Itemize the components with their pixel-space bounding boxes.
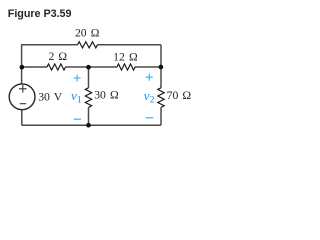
svg-text:12 Ω: 12 Ω bbox=[113, 51, 138, 64]
wire 30ohm branch upper bbox=[88, 67, 90, 88]
resistor 30 ohm (vertical) bbox=[85, 88, 91, 108]
svg-text:v1: v1 bbox=[71, 88, 82, 106]
wire middle right (R 12ohm to right edge) bbox=[135, 66, 161, 68]
resistor 20 ohm bbox=[78, 42, 98, 48]
figure caption bbox=[8, 8, 72, 20]
v1 polarity plus (blue) bbox=[74, 75, 81, 82]
voltage source plus sign bbox=[19, 85, 27, 93]
wire top (left of R 20ohm) bbox=[22, 44, 78, 46]
resistor 70 ohm (vertical) bbox=[158, 88, 164, 108]
voltage source V1 circle bbox=[9, 84, 35, 110]
svg-text:20 Ω: 20 Ω bbox=[75, 26, 100, 39]
v1 polarity minus (blue) bbox=[74, 118, 81, 120]
node dot left middle bbox=[20, 65, 25, 70]
wire middle center (R 2ohm to R 12ohm) bbox=[66, 66, 118, 68]
wire bottom bbox=[22, 124, 161, 126]
svg-text:2 Ω: 2 Ω bbox=[48, 50, 67, 63]
wire middle left (node a to R 2ohm) bbox=[22, 66, 47, 68]
wire top (right of R 20ohm) bbox=[98, 44, 162, 46]
svg-text:70 Ω: 70 Ω bbox=[167, 89, 192, 102]
svg-text:30 V: 30 V bbox=[38, 90, 63, 103]
wire left vertical upper (top wire to source) bbox=[21, 44, 23, 84]
wire right vertical upper bbox=[160, 45, 162, 88]
node dot center middle (top of 30 ohm) bbox=[86, 65, 91, 70]
svg-text:v2: v2 bbox=[144, 88, 155, 106]
wire left vertical lower (source to bottom wire) bbox=[21, 109, 23, 125]
v2 polarity minus (blue) bbox=[146, 117, 154, 119]
v2 polarity plus (blue) bbox=[146, 74, 153, 81]
wire right vertical lower bbox=[160, 107, 162, 125]
resistor 2 ohm bbox=[47, 64, 66, 70]
node dot bottom (bottom of 30 ohm) bbox=[86, 123, 91, 128]
voltage source minus sign bbox=[20, 103, 26, 105]
svg-text:30 Ω: 30 Ω bbox=[94, 89, 119, 102]
wire 30ohm branch lower bbox=[88, 107, 90, 125]
node dot right middle bbox=[159, 65, 164, 70]
resistor 12 ohm bbox=[117, 64, 135, 70]
